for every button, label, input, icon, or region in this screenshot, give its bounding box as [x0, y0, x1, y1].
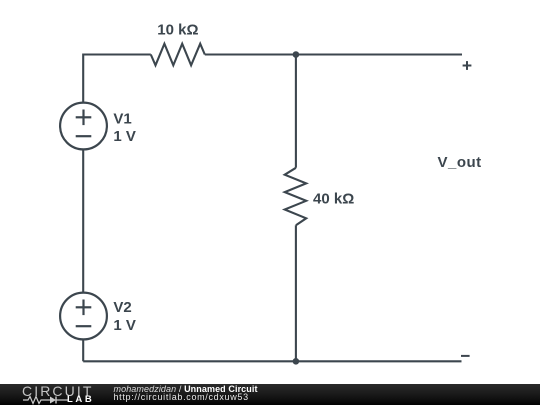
- svg-text:1 V: 1 V: [113, 128, 136, 145]
- junction dot bottom node: [293, 358, 300, 365]
- footer logo LAB: [67, 394, 94, 405]
- output + terminal mark: [463, 61, 472, 70]
- wire V1 to V2 left vertical: [82, 150, 84, 293]
- resistor R1 zigzag: [151, 44, 205, 66]
- voltage source V1 body: [60, 103, 107, 150]
- svg-text:10 kΩ: 10 kΩ: [157, 21, 198, 38]
- wire top-left horizontal segment (node A to R1): [83, 55, 151, 104]
- wire middle vertical top (junction to R2): [295, 55, 297, 168]
- svg-text:V2: V2: [113, 299, 131, 316]
- wire R1 to output + terminal: [205, 53, 462, 55]
- svg-text:1 V: 1 V: [113, 317, 136, 334]
- wire middle vertical bottom (R2 to bottom node): [295, 225, 297, 361]
- footer logo squiggle: [23, 395, 69, 405]
- footer bar: [0, 384, 540, 405]
- svg-text:V_out: V_out: [438, 154, 482, 171]
- output - terminal mark: [461, 355, 470, 357]
- svg-text:V1: V1: [113, 110, 131, 127]
- wire bottom rail: [83, 360, 461, 362]
- voltage source V2 body: [60, 293, 107, 340]
- resistor R2 zigzag: [285, 168, 307, 225]
- svg-text:40 kΩ: 40 kΩ: [313, 190, 354, 207]
- junction dot top node: [293, 51, 300, 58]
- footer credits: [114, 385, 258, 402]
- footer logo CIRCUIT: [22, 383, 93, 399]
- wire V2 to bottom rail: [82, 340, 84, 362]
